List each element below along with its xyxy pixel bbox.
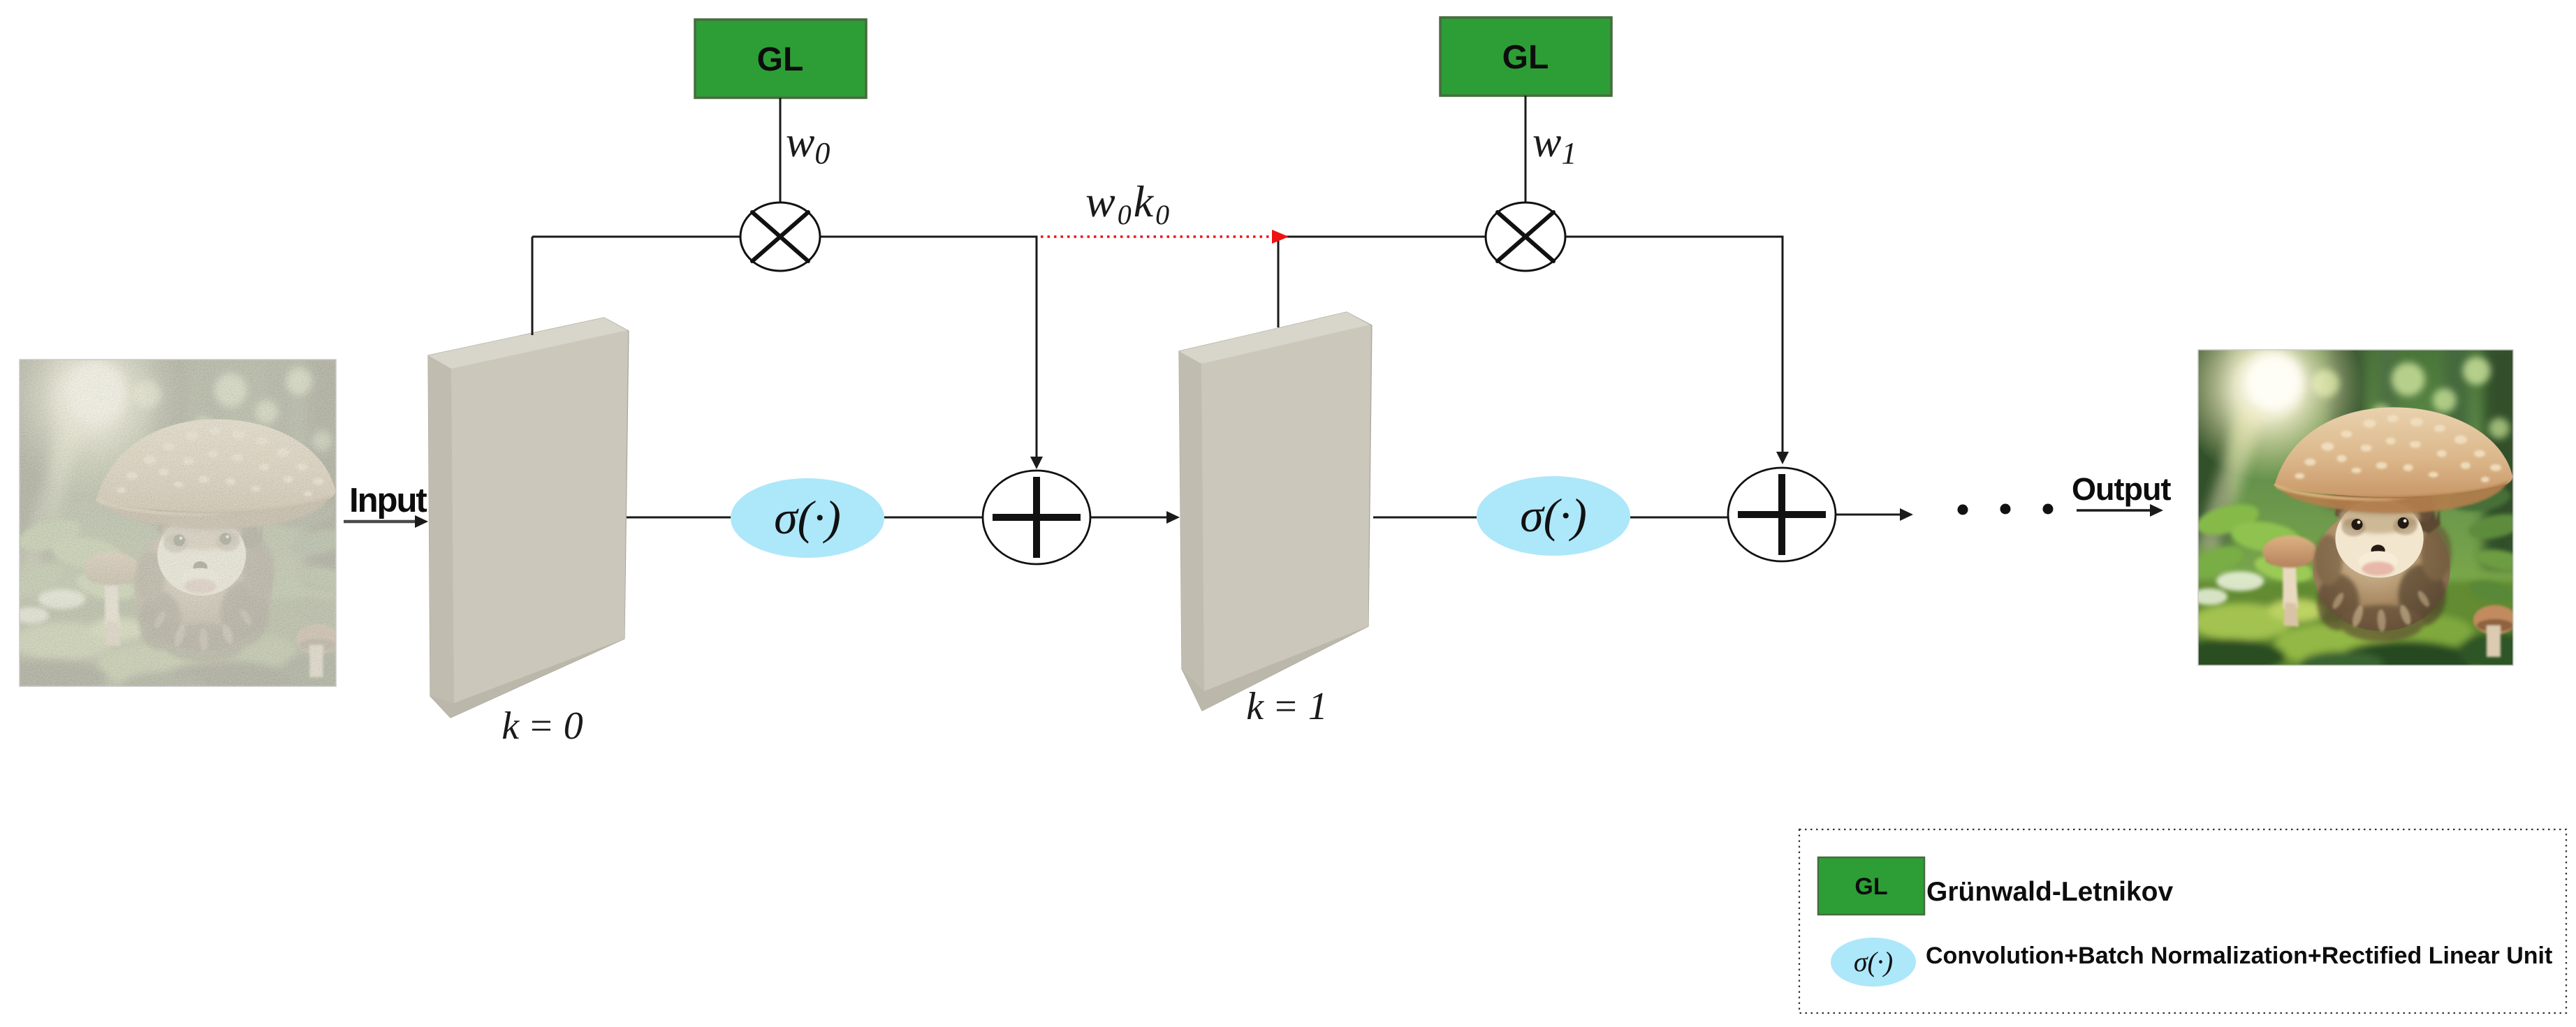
- svg-text:σ(·): σ(·): [774, 491, 841, 544]
- svg-text:Convolution+Batch Normalizatio: Convolution+Batch Normalization+Rectifie…: [1926, 943, 2552, 969]
- svg-text:GL: GL: [757, 41, 804, 78]
- svg-text:σ(·): σ(·): [1520, 489, 1587, 542]
- svg-text:Grünwald-Letnikov: Grünwald-Letnikov: [1926, 877, 2174, 907]
- svg-text:k = 1: k = 1: [1246, 685, 1328, 728]
- svg-text:k = 0: k = 0: [502, 704, 583, 748]
- svg-text:Output: Output: [2072, 471, 2171, 507]
- svg-text:GL: GL: [1854, 873, 1887, 900]
- svg-text:σ(·): σ(·): [1854, 946, 1893, 977]
- svg-text:Input: Input: [349, 482, 427, 519]
- svg-text:GL: GL: [1502, 39, 1549, 76]
